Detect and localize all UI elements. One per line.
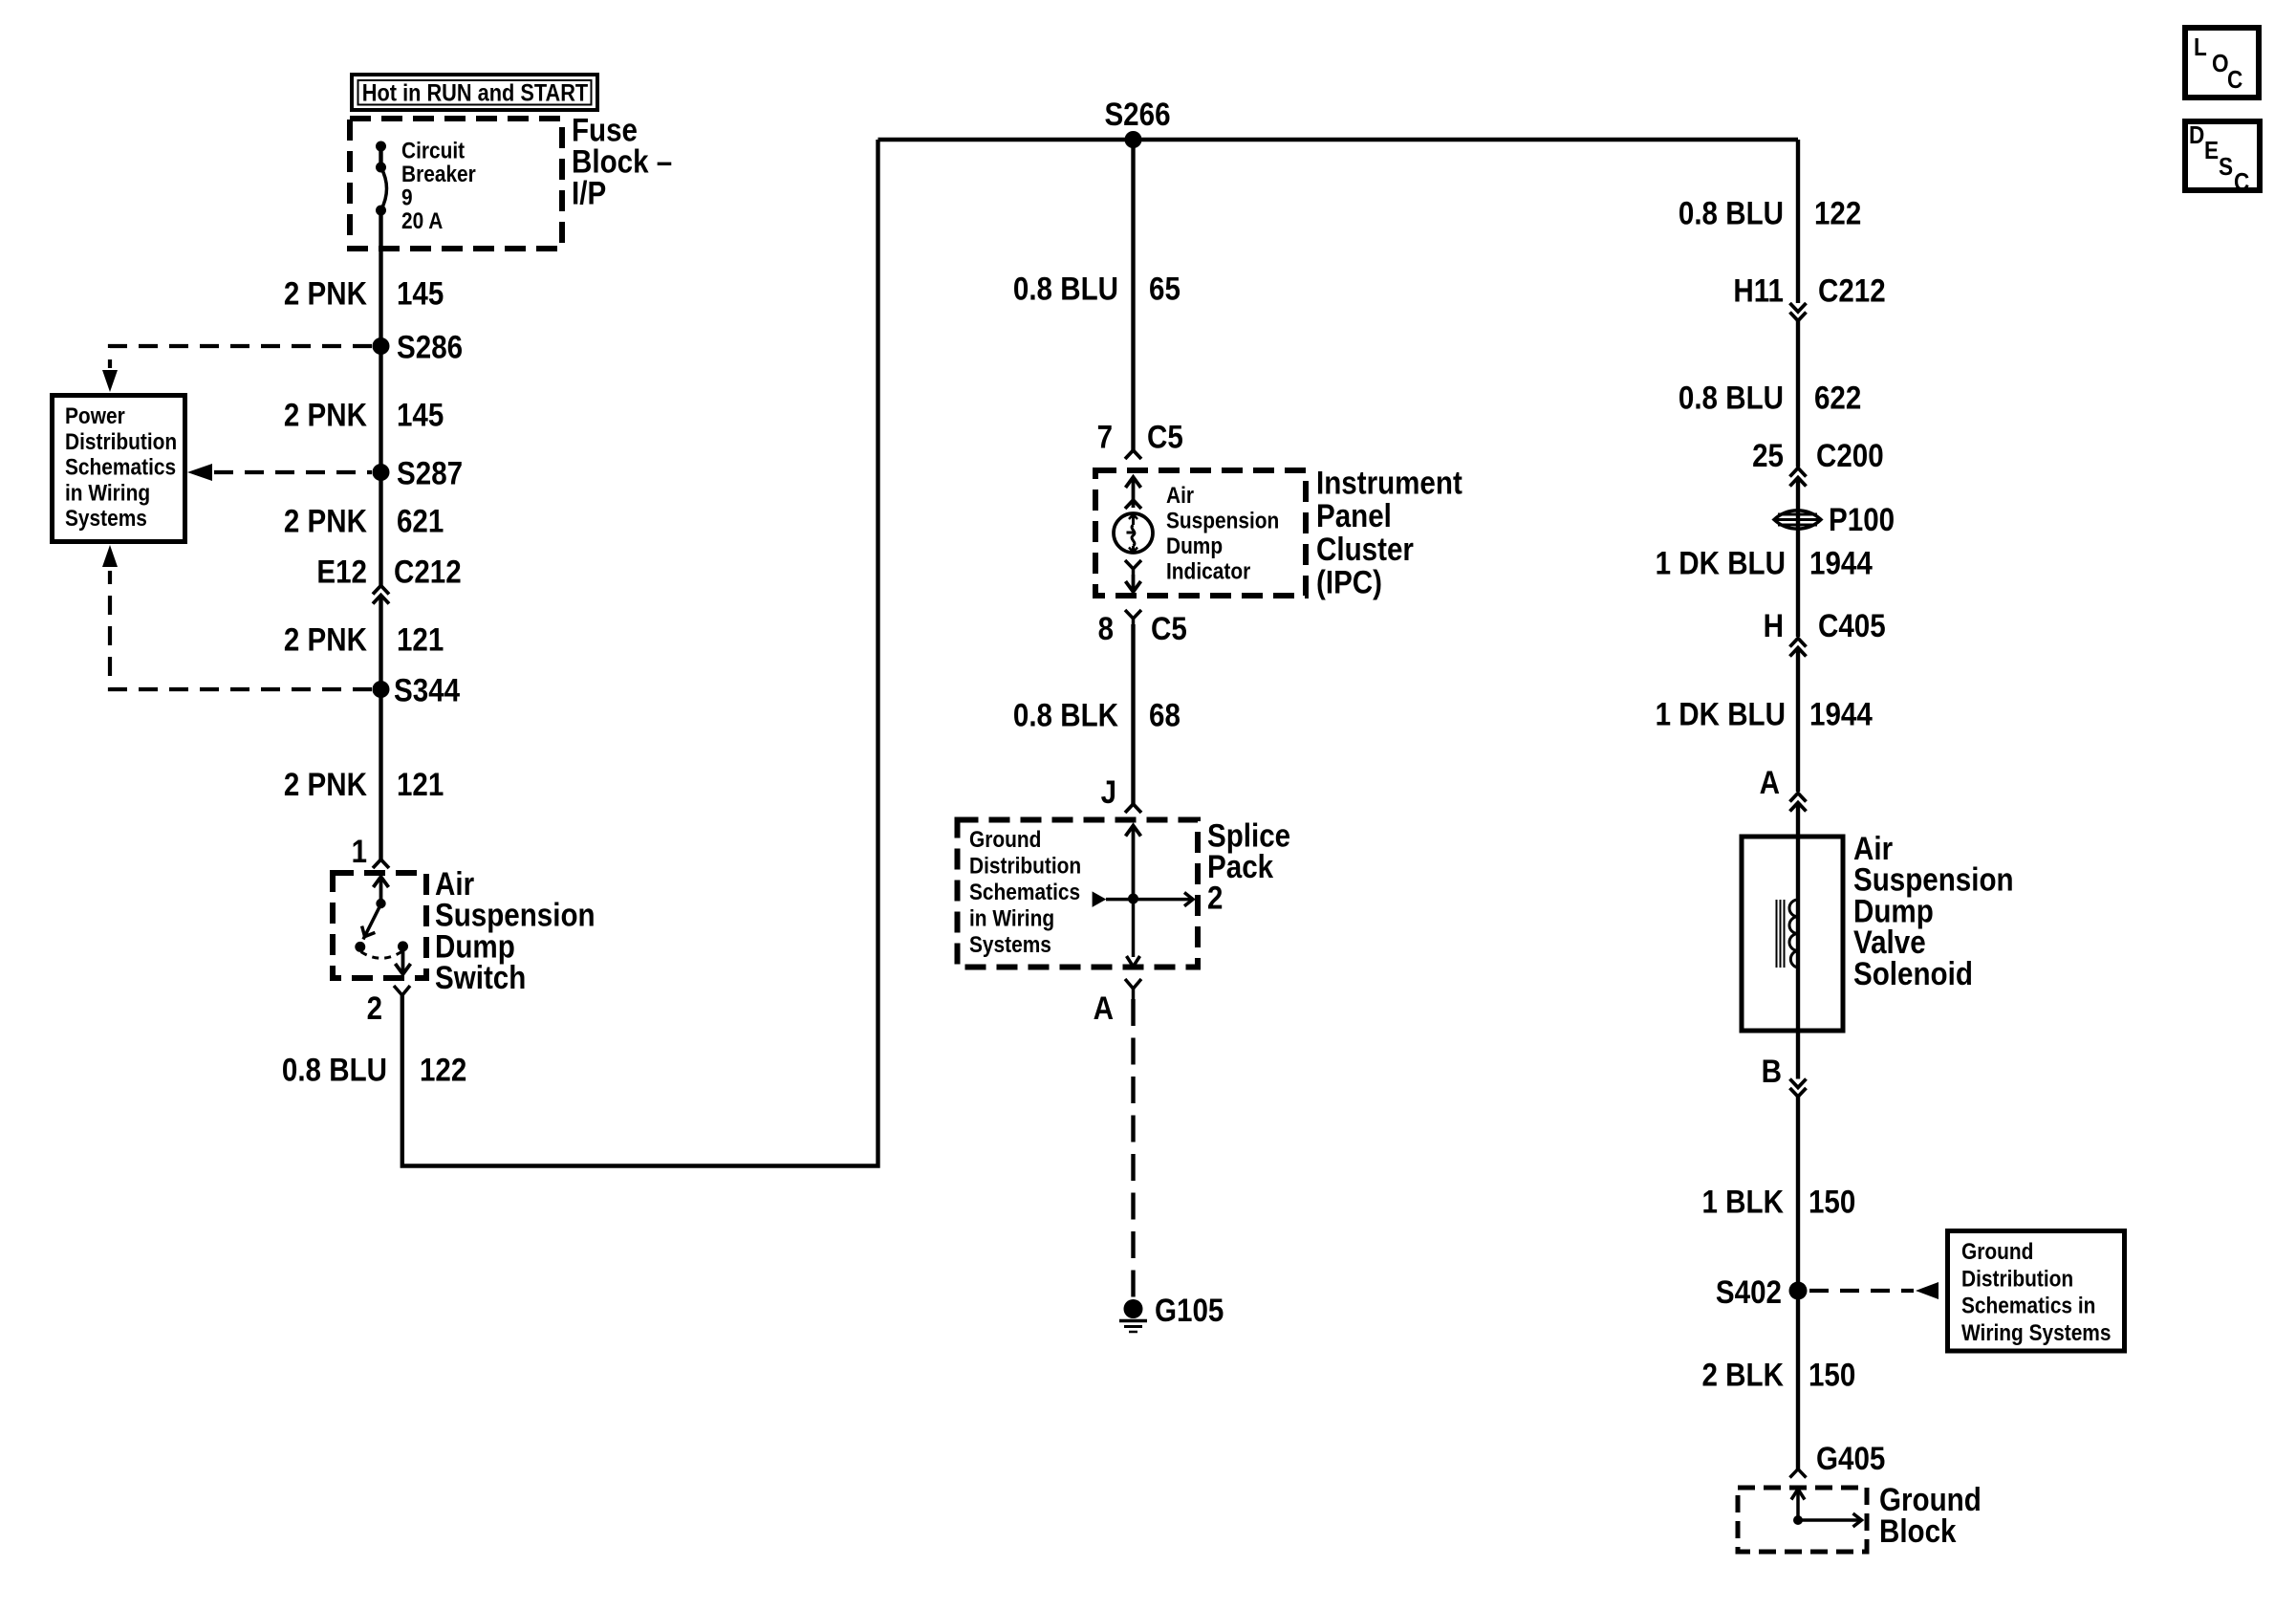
svg-text:2 PNK: 2 PNK — [284, 767, 367, 803]
svg-text:Schematics in: Schematics in — [1961, 1294, 2095, 1319]
svg-text:0.8 BLK: 0.8 BLK — [1013, 698, 1118, 734]
svg-text:68: 68 — [1149, 698, 1180, 734]
splice S344 — [373, 673, 461, 709]
svg-text:20 A: 20 A — [401, 208, 443, 234]
dashed ground wire to G105 — [1131, 999, 1135, 1297]
svg-text:Distribution: Distribution — [1961, 1266, 2073, 1292]
svg-text:A: A — [1094, 990, 1114, 1027]
wire label 1 BLK 150 — [1702, 1184, 1856, 1220]
svg-text:121: 121 — [397, 767, 444, 803]
connector C212 double chevron (left column) — [373, 586, 389, 604]
svg-text:Indicator: Indicator — [1166, 559, 1250, 585]
svg-text:150: 150 — [1809, 1358, 1855, 1394]
svg-text:Block: Block — [1879, 1513, 1957, 1550]
svg-text:0.8 BLU: 0.8 BLU — [1679, 196, 1784, 232]
IPC pin 8 chevron — [1125, 610, 1141, 624]
Fuse Block - I/P dashed box — [350, 119, 562, 249]
svg-text:7: 7 — [1097, 420, 1113, 456]
svg-text:L: L — [2194, 33, 2207, 61]
svg-text:2 PNK: 2 PNK — [284, 622, 367, 659]
wire label 2 PNK 145 (second) — [284, 398, 444, 434]
Splice Pack 2 label — [1207, 817, 1290, 916]
Air Suspension Dump Valve Solenoid label — [1853, 831, 2014, 992]
dashed reference from S402 to Ground Distribution box — [1809, 1282, 1939, 1299]
svg-text:Breaker: Breaker — [401, 162, 476, 187]
svg-text:S287: S287 — [397, 456, 463, 492]
pin 7 chevron — [1125, 450, 1141, 459]
bus wire from riser to right column — [878, 138, 1799, 141]
splice S286 — [373, 330, 464, 366]
Ground Distribution Schematics in Wiring Systems (splice pack) text — [969, 827, 1081, 958]
svg-text:Air: Air — [1166, 483, 1194, 509]
wire label 2 BLK 150 — [1702, 1358, 1856, 1394]
IPC pin 8 C5 label — [1098, 611, 1187, 647]
splice S266 — [1104, 97, 1170, 148]
air suspension dump indicator lamp symbol — [1114, 477, 1153, 592]
wire from circuit breaker down to C212 connector — [379, 210, 382, 586]
svg-text:122: 122 — [420, 1052, 466, 1088]
Power Distribution Schematics in Wiring Systems box — [53, 396, 185, 542]
svg-text:Panel: Panel — [1316, 498, 1392, 534]
svg-text:2 PNK: 2 PNK — [284, 398, 367, 434]
connector 25 C200 label — [1752, 438, 1884, 474]
svg-text:A: A — [1760, 765, 1780, 801]
wire from switch pin 2 to bus riser — [402, 140, 878, 1166]
ground block internal arrows — [1791, 1490, 1862, 1528]
svg-text:1: 1 — [352, 834, 367, 870]
Ground Distribution Schematics in Wiring Systems box (right) — [1948, 1231, 2125, 1352]
svg-text:Schematics: Schematics — [65, 455, 176, 481]
svg-text:Ground: Ground — [1961, 1239, 2033, 1265]
svg-text:C5: C5 — [1151, 611, 1187, 647]
wire from S266 down to IPC pin 7 — [1131, 140, 1135, 450]
svg-text:9: 9 — [401, 185, 413, 211]
svg-text:150: 150 — [1809, 1184, 1855, 1220]
connector C405 double chevron — [1790, 639, 1807, 657]
pin A chevron — [1125, 979, 1141, 999]
grommet P100 symbol — [1774, 511, 1821, 529]
svg-text:H: H — [1764, 608, 1784, 644]
svg-text:S266: S266 — [1104, 97, 1170, 133]
svg-text:8: 8 — [1098, 611, 1114, 647]
svg-text:145: 145 — [397, 398, 444, 434]
svg-text:2: 2 — [1207, 881, 1223, 917]
svg-text:Ground: Ground — [969, 827, 1041, 853]
svg-text:Power: Power — [65, 403, 125, 429]
svg-text:S286: S286 — [397, 330, 463, 366]
svg-text:C212: C212 — [1818, 273, 1886, 310]
svg-text:122: 122 — [1814, 196, 1861, 232]
svg-text:C200: C200 — [1816, 438, 1884, 474]
svg-text:0.8 BLU: 0.8 BLU — [282, 1052, 387, 1088]
svg-text:J: J — [1101, 774, 1116, 811]
Ground Block dashed box — [1738, 1488, 1867, 1552]
wire label 2 PNK 121 (lower) — [284, 767, 444, 803]
svg-text:G105: G105 — [1155, 1293, 1224, 1329]
svg-text:Systems: Systems — [65, 506, 147, 532]
Air Suspension Dump Switch label — [435, 866, 596, 996]
svg-text:I/P: I/P — [572, 176, 606, 212]
IPC pin 7 C5 label — [1097, 420, 1183, 456]
Air Suspension Dump Indicator text — [1166, 483, 1279, 585]
wire label 0.8 BLU 65 — [1013, 272, 1180, 308]
connector C200 double chevron — [1790, 468, 1807, 487]
svg-text:S344: S344 — [394, 673, 460, 709]
splice S287 — [373, 456, 464, 492]
wire label 0.8 BLK 68 — [1013, 698, 1180, 734]
Air Suspension Dump Switch dashed box — [333, 873, 426, 978]
svg-text:D: D — [2189, 120, 2204, 149]
svg-text:Dump: Dump — [1166, 533, 1223, 559]
svg-text:2: 2 — [367, 990, 382, 1027]
svg-text:in Wiring: in Wiring — [65, 480, 150, 506]
pin J chevron — [1125, 804, 1141, 813]
G405 chevron — [1790, 1469, 1807, 1478]
svg-text:Suspension: Suspension — [1166, 509, 1279, 534]
svg-text:E12: E12 — [316, 555, 367, 591]
splice pack internal arrows — [1093, 826, 1193, 968]
wire label 2 PNK 121 (upper) — [284, 622, 444, 659]
svg-text:1 DK BLU: 1 DK BLU — [1656, 697, 1786, 733]
circuit breaker 9 20A symbol — [376, 141, 387, 216]
Splice Pack dashed box — [958, 820, 1199, 968]
svg-text:C5: C5 — [1147, 420, 1183, 456]
wire label 1 DK BLU 1944 (lower) — [1656, 697, 1873, 733]
dashed reference from S344 to Power Distribution box — [102, 545, 372, 689]
Power Distribution box text — [65, 403, 177, 532]
svg-text:621: 621 — [397, 504, 444, 540]
svg-text:Schematics: Schematics — [969, 880, 1080, 905]
Ground Block label — [1879, 1482, 1982, 1550]
svg-text:25: 25 — [1752, 438, 1784, 474]
svg-text:H11: H11 — [1733, 273, 1784, 310]
svg-text:0.8 BLU: 0.8 BLU — [1679, 381, 1784, 417]
connector E12 C212 label — [316, 555, 461, 591]
wire from C212 connector down to switch pin 1 — [379, 596, 382, 860]
svg-text:Switch: Switch — [435, 960, 526, 996]
svg-text:1944: 1944 — [1809, 546, 1873, 582]
svg-text:622: 622 — [1814, 381, 1861, 417]
svg-text:C: C — [2227, 65, 2242, 94]
svg-text:2 BLK: 2 BLK — [1702, 1358, 1785, 1394]
svg-text:2 PNK: 2 PNK — [284, 504, 367, 540]
wire label 2 PNK 621 — [284, 504, 444, 540]
right column wire segments — [1796, 140, 1800, 1469]
Fuse Block - I/P label — [572, 113, 672, 212]
svg-text:121: 121 — [397, 622, 444, 659]
wire from IPC pin 8 to splice pack — [1131, 624, 1135, 804]
ground G105 symbol — [1119, 1299, 1147, 1332]
svg-text:C405: C405 — [1818, 608, 1886, 644]
svg-text:Systems: Systems — [969, 932, 1051, 958]
svg-text:1 BLK: 1 BLK — [1702, 1184, 1785, 1220]
connector C212 double chevron (right column) — [1790, 303, 1807, 321]
pin A double chevron — [1790, 794, 1807, 812]
LOC reference box — [2185, 28, 2259, 98]
solenoid coil symbol — [1777, 900, 1799, 968]
wire label 0.8 BLU 122 (left) — [282, 1052, 466, 1088]
svg-text:2 PNK: 2 PNK — [284, 276, 367, 313]
svg-text:0.8 BLU: 0.8 BLU — [1013, 272, 1118, 308]
svg-text:Wiring Systems: Wiring Systems — [1961, 1320, 2112, 1346]
svg-text:Instrument: Instrument — [1316, 466, 1462, 502]
svg-text:C212: C212 — [394, 555, 462, 591]
Ground Distribution box text — [1961, 1239, 2112, 1346]
switch pin 1 chevron — [373, 859, 389, 868]
svg-text:Distribution: Distribution — [969, 854, 1081, 880]
svg-text:1 DK BLU: 1 DK BLU — [1656, 546, 1786, 582]
svg-text:Circuit: Circuit — [401, 139, 465, 164]
wire label 0.8 BLU 622 — [1679, 381, 1861, 417]
Air Suspension Dump Valve Solenoid box — [1742, 837, 1843, 1031]
svg-text:(IPC): (IPC) — [1316, 565, 1382, 601]
header box "Hot in RUN and START" — [352, 75, 597, 110]
pin B double chevron — [1790, 1079, 1807, 1098]
svg-text:S402: S402 — [1716, 1274, 1782, 1311]
wire label 0.8 BLU 122 (right) — [1679, 196, 1861, 232]
DESC reference box — [2185, 120, 2260, 196]
switch symbol inside box — [355, 877, 410, 974]
switch pin 2 chevron — [394, 986, 410, 995]
dashed reference from S286 to Power Distribution box — [102, 346, 372, 392]
dashed reference from S287 to Power Distribution box — [187, 464, 372, 481]
svg-text:O: O — [2212, 49, 2229, 77]
wire label 1 DK BLU 1944 (upper) — [1656, 546, 1873, 582]
svg-text:B: B — [1762, 1054, 1782, 1090]
svg-text:Cluster: Cluster — [1316, 532, 1414, 568]
svg-text:C: C — [2234, 167, 2249, 196]
svg-text:in Wiring: in Wiring — [969, 906, 1054, 932]
svg-text:Hot in RUN and START: Hot in RUN and START — [362, 80, 588, 107]
svg-text:Distribution: Distribution — [65, 429, 177, 455]
Instrument Panel Cluster dashed box — [1095, 470, 1306, 596]
svg-text:145: 145 — [397, 276, 444, 313]
connector H C405 label — [1764, 608, 1886, 644]
circuit breaker text — [401, 139, 476, 235]
splice S402 — [1716, 1274, 1808, 1311]
svg-text:G405: G405 — [1816, 1441, 1885, 1477]
svg-text:1944: 1944 — [1809, 697, 1873, 733]
svg-text:P100: P100 — [1829, 502, 1895, 538]
svg-text:Solenoid: Solenoid — [1853, 956, 1973, 992]
Instrument Panel Cluster (IPC) label — [1316, 466, 1462, 601]
svg-text:65: 65 — [1149, 272, 1180, 308]
svg-text:S: S — [2219, 152, 2233, 181]
connector H11 C212 label — [1733, 273, 1885, 310]
wire label 2 PNK 145 (upper) — [284, 276, 444, 313]
svg-text:E: E — [2204, 136, 2219, 164]
